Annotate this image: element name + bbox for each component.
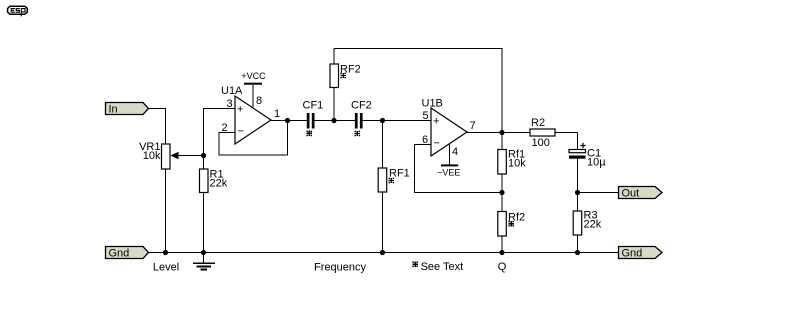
svg-text:22k: 22k — [210, 178, 228, 190]
resistor R1 — [200, 169, 228, 253]
wire In to VR1 — [149, 109, 166, 145]
svg-text:CF2: CF2 — [351, 100, 372, 112]
capacitor CF2 — [351, 100, 372, 137]
node RF1 gnd — [380, 250, 385, 255]
Gnd tag (left) — [106, 247, 149, 260]
node RF1 top — [380, 118, 385, 123]
svg-text:+: + — [433, 116, 439, 128]
op-amp U1A — [221, 85, 280, 144]
svg-text:1: 1 — [274, 108, 280, 120]
wire pin3 drop — [204, 109, 236, 170]
svg-text:10µ: 10µ — [587, 157, 606, 169]
resistor R2 — [530, 117, 578, 149]
svg-text:U1B: U1B — [422, 98, 443, 110]
node Rf2 gnd — [499, 250, 504, 255]
svg-text:Q: Q — [498, 261, 507, 273]
svg-text:Out: Out — [622, 188, 640, 200]
svg-text:4: 4 — [452, 146, 458, 158]
wire CF1-CF2 — [315, 120, 355, 122]
svg-text:−: − — [434, 138, 440, 150]
wire CF2 to U1B — [363, 120, 431, 122]
resistor RF1 — [378, 121, 410, 253]
node VR1 wiper — [201, 153, 206, 158]
node Out — [575, 190, 580, 195]
svg-text:RF1: RF1 — [389, 168, 410, 180]
svg-text:−: − — [238, 126, 244, 138]
svg-text:100: 100 — [532, 137, 550, 149]
node VR1 gnd — [163, 250, 168, 255]
node RF2 bottom — [331, 118, 336, 123]
resistor Rf2 — [498, 212, 525, 253]
wire top feedback — [334, 49, 502, 133]
svg-text:CF1: CF1 — [303, 100, 324, 112]
svg-text:−VEE: −VEE — [437, 167, 460, 177]
Gnd tag (right) — [619, 247, 663, 260]
svg-text:10k: 10k — [508, 158, 526, 170]
node R3 gnd — [575, 250, 580, 255]
node R1 gnd — [201, 250, 206, 255]
resistor Rf1 — [498, 133, 526, 212]
resistor R3 — [573, 210, 602, 236]
ESP logo — [8, 6, 28, 16]
-VEE — [437, 144, 460, 177]
Out tag — [619, 187, 663, 200]
svg-text:See Text: See Text — [421, 261, 464, 273]
wire U1B output — [467, 132, 530, 134]
svg-text:Gnd: Gnd — [109, 248, 130, 260]
svg-text:In: In — [109, 104, 118, 116]
node U1A out — [285, 118, 290, 123]
svg-text:Frequency: Frequency — [314, 262, 366, 274]
potentiometer VR1 — [139, 141, 203, 253]
svg-text:7: 7 — [470, 120, 476, 132]
wire U1A output — [271, 120, 307, 122]
svg-text:Gnd: Gnd — [622, 248, 643, 260]
svg-text:22k: 22k — [584, 219, 602, 231]
+VCC — [241, 71, 266, 107]
svg-text:+: + — [237, 104, 243, 116]
capacitor CF1 — [303, 100, 324, 137]
resistor RF2 — [330, 49, 361, 121]
svg-text:Level: Level — [153, 262, 179, 274]
capacitor C1 — [569, 143, 606, 253]
ground rail — [149, 252, 619, 254]
node U1B out — [499, 130, 504, 135]
svg-text:8: 8 — [256, 95, 262, 107]
label See Text — [412, 261, 418, 267]
svg-text:R2: R2 — [531, 117, 545, 129]
svg-text:+VCC: +VCC — [241, 71, 266, 81]
wire R2 to C1 — [577, 133, 579, 150]
wire Out — [578, 192, 619, 194]
svg-text:10k: 10k — [143, 150, 161, 162]
op-amp U1B — [422, 98, 476, 159]
node Rf1/Rf2 — [499, 190, 504, 195]
svg-text:5: 5 — [423, 110, 429, 122]
svg-text:3: 3 — [227, 98, 233, 110]
In tag — [106, 103, 149, 116]
wire U1B feedback — [415, 145, 503, 193]
svg-text:U1A: U1A — [221, 85, 243, 97]
wire U1A feedback — [219, 121, 288, 156]
ground — [193, 253, 215, 270]
